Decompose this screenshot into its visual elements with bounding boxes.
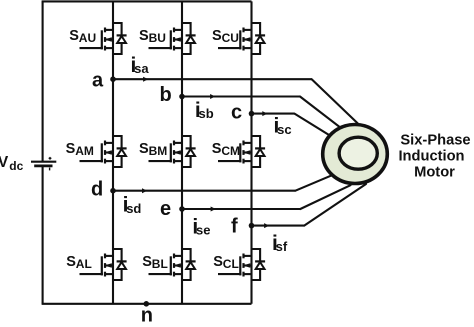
svg-text:n: n — [141, 305, 153, 327]
svg-text:AU: AU — [79, 31, 96, 45]
svg-text:sc: sc — [277, 122, 291, 137]
svg-text:S: S — [139, 28, 149, 44]
svg-text:S: S — [142, 254, 152, 270]
svg-text:S: S — [212, 141, 222, 157]
svg-text:AL: AL — [76, 257, 92, 271]
svg-text:Six-Phase: Six-Phase — [400, 133, 470, 149]
svg-text:S: S — [139, 141, 149, 157]
svg-text:sa: sa — [134, 61, 149, 76]
svg-text:BL: BL — [152, 257, 168, 271]
svg-text:sb: sb — [199, 106, 214, 121]
svg-text:S: S — [213, 254, 223, 270]
svg-text:BU: BU — [149, 31, 166, 45]
svg-text:S: S — [69, 28, 79, 44]
svg-text:S: S — [66, 141, 76, 157]
svg-text:Induction: Induction — [398, 149, 464, 165]
svg-text:e: e — [160, 198, 171, 220]
svg-text:f: f — [231, 216, 238, 238]
svg-text:CM: CM — [221, 144, 240, 158]
svg-text:b: b — [160, 84, 172, 106]
svg-text:Motor: Motor — [414, 165, 455, 181]
svg-text:se: se — [196, 223, 210, 238]
svg-text:sd: sd — [126, 201, 141, 216]
svg-text:S: S — [66, 254, 76, 270]
svg-text:d: d — [91, 179, 103, 201]
svg-text:a: a — [92, 69, 104, 91]
svg-text:sf: sf — [276, 239, 288, 254]
svg-text:S: S — [212, 28, 222, 44]
svg-text:BM: BM — [149, 144, 168, 158]
svg-text:CL: CL — [223, 257, 239, 271]
svg-text:c: c — [231, 102, 242, 124]
svg-text:V: V — [0, 154, 9, 171]
svg-text:AM: AM — [75, 144, 94, 158]
svg-text:dc: dc — [9, 159, 23, 173]
svg-text:CU: CU — [222, 31, 239, 45]
